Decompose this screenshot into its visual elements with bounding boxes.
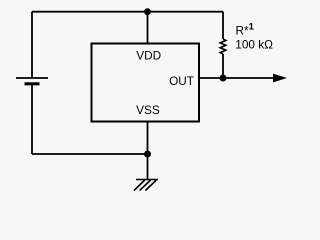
ground: [134, 180, 158, 191]
svg-text:100 kΩ: 100 kΩ: [235, 37, 273, 51]
node junction OUT: [220, 75, 227, 82]
svg-text:VSS: VSS: [136, 103, 160, 117]
svg-text:VDD: VDD: [136, 49, 161, 63]
node junction top: [144, 8, 151, 15]
wire left rail lower (battery - to bottom rail): [31, 84, 33, 154]
wire right rail (top to resistor): [222, 12, 224, 39]
wire OUT: [200, 77, 274, 79]
wire VDD pin: [147, 12, 149, 43]
wire VSS pin to ground: [147, 123, 149, 180]
wire top rail: [32, 11, 223, 13]
arrow OUT: [273, 74, 287, 83]
wire resistor to OUT node: [222, 54, 224, 78]
resistor R*1: [220, 39, 226, 54]
wire bottom rail: [32, 153, 148, 155]
IC U1: [92, 44, 200, 122]
wire left rail upper (to battery +): [31, 12, 33, 78]
svg-text:OUT: OUT: [169, 74, 194, 88]
battery BT1: [16, 78, 48, 84]
node junction bottom: [144, 151, 151, 158]
